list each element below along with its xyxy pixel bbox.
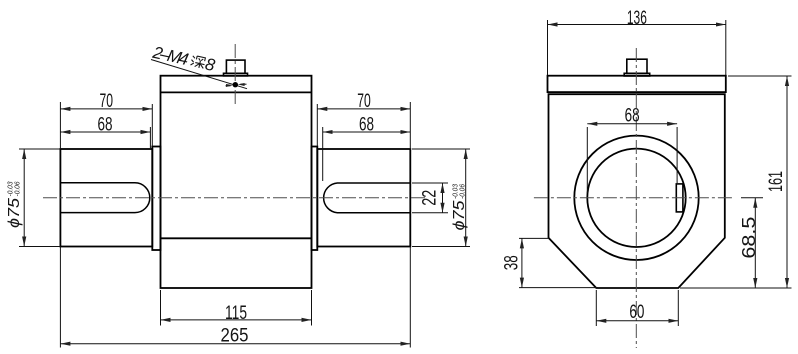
dimension 70 right: [317, 102, 410, 149]
centerline left view horizontal: [43, 197, 428, 199]
cap plate right view: [548, 76, 726, 92]
svg-text:-0.06: -0.06: [458, 183, 467, 199]
dimension 68 right: [323, 127, 411, 181]
svg-text:60: 60: [629, 302, 644, 323]
svg-text:68: 68: [625, 106, 640, 127]
chamfer edge line left view: [161, 237, 312, 239]
svg-text:70: 70: [357, 91, 371, 112]
cap bottom line left view: [161, 91, 312, 93]
left collar: [152, 147, 160, 251]
dimension 22: [412, 183, 448, 213]
dimension 68.5: [741, 198, 763, 288]
svg-text:115: 115: [225, 303, 247, 324]
svg-text:22: 22: [419, 190, 440, 206]
dimension 161: [680, 76, 792, 288]
svg-text:ϕ75: ϕ75: [451, 200, 468, 230]
svg-text:161: 161: [766, 171, 787, 192]
dimension phi75 right: [412, 149, 470, 247]
dimension 115: [161, 290, 312, 326]
label 2-M4 deep 8: [150, 43, 217, 76]
svg-text:136: 136: [627, 8, 647, 29]
svg-text:68: 68: [359, 114, 374, 135]
right shaft keyway slot: [324, 183, 411, 213]
left shaft: [60, 149, 152, 247]
dimension 265: [60, 247, 410, 348]
central block body: [161, 76, 312, 288]
leader line 2-M4: [151, 60, 247, 89]
dimension 68 left: [60, 127, 150, 148]
svg-text:68.5: 68.5: [739, 217, 759, 259]
dimension phi75 left: [19, 149, 60, 247]
svg-text:70: 70: [100, 91, 114, 112]
centerline left view vertical (connector axis): [234, 44, 236, 107]
dimension 60: [596, 290, 678, 326]
block body right view with chamfers: [549, 94, 725, 288]
dimension 68 bore: [587, 124, 677, 193]
svg-text:38: 38: [502, 255, 523, 270]
outer circle: [574, 136, 698, 260]
centerline right view horizontal: [534, 197, 733, 199]
right shaft: [317, 149, 410, 247]
svg-text:-0.06: -0.06: [12, 181, 21, 197]
centerline right view vertical: [635, 48, 637, 348]
dimension 136: [548, 20, 726, 75]
leader tick arrows: [226, 84, 247, 86]
right collar: [312, 147, 318, 251]
svg-text:265: 265: [221, 326, 249, 347]
dimension 38: [519, 238, 598, 287]
connector right view: [624, 59, 650, 76]
connector left view: [224, 60, 248, 76]
svg-text:ϕ75: ϕ75: [6, 198, 23, 228]
dimension 70 left: [60, 102, 152, 149]
inner circle bore: [587, 149, 685, 247]
leader dot: [233, 82, 238, 87]
keyway rect in bore: [676, 184, 683, 212]
hanzi shen (deep) drawn glyph: [190, 55, 206, 69]
left shaft keyway slot: [60, 183, 149, 213]
right view: [548, 59, 726, 288]
svg-text:68: 68: [98, 114, 113, 135]
